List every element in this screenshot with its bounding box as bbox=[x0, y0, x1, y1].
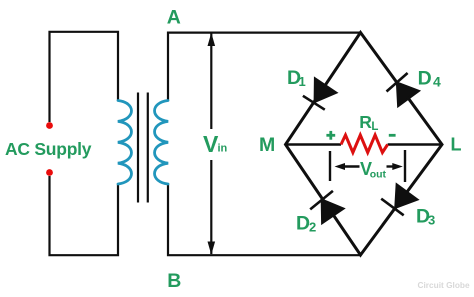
svg-text:Circuit Globe: Circuit Globe bbox=[418, 280, 470, 290]
svg-text:out: out bbox=[370, 169, 387, 181]
svg-text:D: D bbox=[296, 212, 310, 234]
svg-text:A: A bbox=[167, 6, 181, 28]
svg-text:M: M bbox=[259, 134, 275, 156]
svg-text:3: 3 bbox=[428, 213, 435, 228]
svg-text:L: L bbox=[371, 121, 378, 133]
svg-text:L: L bbox=[451, 135, 462, 155]
svg-text:R: R bbox=[359, 112, 372, 132]
svg-text:1: 1 bbox=[299, 74, 306, 89]
svg-text:D: D bbox=[418, 67, 432, 89]
svg-text:in: in bbox=[218, 143, 228, 155]
svg-text:4: 4 bbox=[433, 73, 441, 89]
svg-text:2: 2 bbox=[309, 219, 316, 234]
svg-text:B: B bbox=[167, 270, 181, 292]
svg-text:AC Supply: AC Supply bbox=[5, 139, 92, 159]
